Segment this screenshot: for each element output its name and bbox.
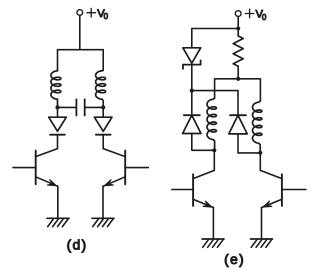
node C bbox=[236, 26, 240, 30]
ground bbox=[251, 239, 273, 247]
capacitor C1 bbox=[58, 99, 104, 115]
node A bbox=[55, 105, 59, 109]
wire: D4 to node F bbox=[192, 134, 215, 151]
svg-text:(e): (e) bbox=[224, 251, 245, 267]
transistor Q3 bbox=[172, 170, 215, 207]
diode D1 bbox=[49, 107, 67, 134]
inductor L2 bbox=[96, 70, 106, 108]
wire: node D to D5 (crossover) bbox=[192, 91, 238, 116]
node E bbox=[236, 77, 240, 81]
wire: R1 to node E bbox=[237, 66, 239, 79]
wire: D5 to node G bbox=[238, 134, 260, 153]
node B bbox=[101, 105, 105, 109]
wire: left branch down (d) bbox=[57, 50, 59, 71]
node G bbox=[258, 151, 262, 155]
wire: D1 to Q1 collector bbox=[57, 135, 59, 149]
wire: D3 to node D bbox=[191, 65, 193, 91]
label +V0 (d) bbox=[87, 8, 109, 21]
resistor R1 bbox=[233, 31, 243, 66]
ground bbox=[92, 218, 114, 226]
svg-text:0: 0 bbox=[262, 13, 267, 22]
terminal +V0 (e) bbox=[235, 11, 241, 17]
wire: Q4 emitter to ground bbox=[261, 207, 263, 239]
wire: terminal to rail (d) bbox=[79, 15, 81, 49]
wire: Q3 emitter to ground bbox=[212, 207, 214, 239]
zener diode D3 bbox=[183, 48, 201, 69]
inductor L4 bbox=[253, 101, 262, 153]
ground bbox=[47, 218, 69, 226]
diode D2 bbox=[94, 107, 112, 134]
inductor L3 bbox=[207, 98, 216, 150]
ground bbox=[202, 239, 224, 247]
wire: node G to Q4 collector bbox=[259, 153, 261, 171]
svg-text:(d): (d) bbox=[67, 236, 88, 252]
label +V0 (e) bbox=[245, 9, 267, 22]
wire: terminal to node C (e) bbox=[237, 17, 239, 29]
wire: node F to Q3 collector bbox=[213, 150, 215, 170]
transistor Q2 bbox=[103, 149, 148, 187]
wire: D2 to Q2 collector bbox=[102, 135, 104, 149]
svg-text:0: 0 bbox=[104, 12, 109, 21]
wire: node E to L4 top bbox=[238, 79, 260, 101]
node F bbox=[212, 148, 216, 152]
wire: Q2 emitter to ground bbox=[102, 186, 104, 218]
node D bbox=[190, 89, 194, 93]
transistor Q1 bbox=[13, 149, 58, 187]
wire: down to zener D3 bbox=[191, 29, 193, 48]
wire: top rail (e) bbox=[192, 28, 238, 30]
diode D5 bbox=[229, 115, 247, 134]
wire: right branch down (d) bbox=[102, 50, 104, 71]
transistor Q4 bbox=[260, 170, 306, 207]
terminal +V0 (d) bbox=[77, 10, 83, 16]
wire: Q1 emitter to ground bbox=[57, 186, 59, 218]
wire: node E to L3 top bbox=[215, 79, 239, 98]
diode D4 bbox=[183, 91, 201, 134]
wire: top rail (d) bbox=[58, 49, 104, 51]
inductor L1 bbox=[51, 70, 61, 108]
